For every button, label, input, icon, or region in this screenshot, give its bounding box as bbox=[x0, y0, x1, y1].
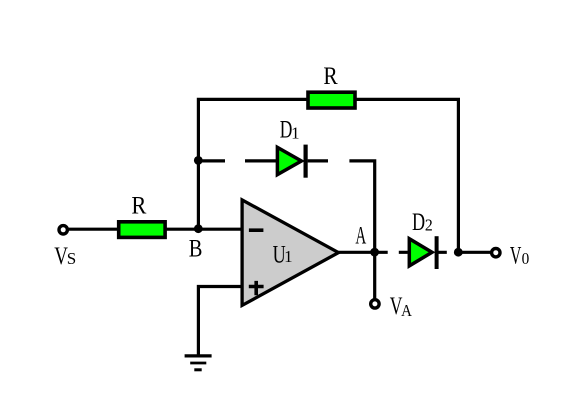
svg-text:0: 0 bbox=[522, 249, 530, 268]
svg-text:1: 1 bbox=[291, 124, 300, 143]
svg-text:1: 1 bbox=[284, 247, 293, 266]
svg-text:R: R bbox=[131, 193, 146, 220]
svg-text:D: D bbox=[412, 209, 425, 236]
svg-text:S: S bbox=[67, 249, 76, 268]
svg-text:A: A bbox=[355, 222, 366, 249]
svg-text:A: A bbox=[401, 301, 412, 320]
svg-text:B: B bbox=[189, 236, 203, 263]
svg-text:V: V bbox=[510, 243, 522, 270]
svg-text:2: 2 bbox=[425, 216, 433, 235]
svg-text:R: R bbox=[323, 63, 338, 90]
